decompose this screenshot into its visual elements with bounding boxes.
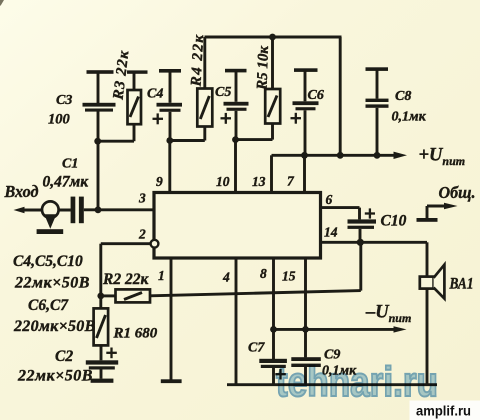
node A junction C3/R3 bbox=[94, 138, 101, 145]
svg-text:0,47мк: 0,47мк bbox=[43, 174, 90, 191]
ground tick pin 1 bbox=[161, 379, 182, 383]
svg-text:R4 22к: R4 22к bbox=[188, 33, 207, 88]
arrow -U bbox=[394, 326, 407, 332]
svg-text:С7: С7 bbox=[248, 341, 265, 356]
wire pin 7 bbox=[303, 155, 306, 192]
wire pin 2 feedback bbox=[101, 242, 151, 245]
resistor R1 bbox=[94, 296, 109, 360]
svg-text:8: 8 bbox=[260, 266, 267, 281]
resistor R4 bbox=[170, 37, 213, 141]
wire pin 15 to C9 bbox=[304, 258, 307, 357]
corner smudge bbox=[0, 0, 4, 6]
wire pin 14 bbox=[321, 241, 361, 244]
terminal input arrow bbox=[14, 207, 25, 214]
svg-text:220мк×50В: 220мк×50В bbox=[13, 318, 96, 335]
node junction input line bbox=[95, 206, 102, 213]
pin 2 inverting circle bbox=[151, 240, 159, 248]
svg-text:R5 10к: R5 10к bbox=[254, 45, 272, 91]
node junction right vertical on rail bbox=[337, 152, 344, 159]
wire pin 10 bbox=[234, 140, 237, 193]
svg-text:Вход: Вход bbox=[4, 182, 39, 201]
node B junction C4/R4/pin9 bbox=[166, 137, 173, 144]
wire top bus bbox=[205, 36, 342, 39]
svg-text:0,1мк: 0,1мк bbox=[392, 110, 427, 125]
wire speaker to bus bbox=[426, 289, 429, 385]
svg-text:15: 15 bbox=[282, 269, 296, 284]
svg-text:4: 4 bbox=[222, 270, 230, 285]
node junction R2/R1 bbox=[97, 293, 104, 300]
node junction C8 on rail bbox=[374, 152, 381, 159]
wire pin 6 bbox=[321, 208, 360, 220]
node junction C6 pin7 on rail bbox=[301, 152, 308, 159]
wire to speaker bbox=[360, 242, 427, 276]
svg-text:С10: С10 bbox=[381, 213, 407, 230]
wire pin 13 bbox=[270, 155, 273, 192]
node junction R5 top bbox=[269, 34, 276, 41]
capacitor C8 bbox=[366, 67, 389, 155]
svg-text:13: 13 bbox=[252, 174, 266, 189]
svg-text:6: 6 bbox=[326, 192, 333, 207]
arrow +U bbox=[394, 152, 408, 159]
wire bootstrap vertical bbox=[359, 242, 362, 290]
capacitor C3 bbox=[83, 70, 116, 141]
node junction C9 on -U bbox=[302, 326, 309, 333]
svg-text:С8: С8 bbox=[395, 89, 411, 104]
svg-text:С2: С2 bbox=[55, 348, 73, 365]
wire pin 9 bbox=[168, 141, 171, 193]
svg-text:3: 3 bbox=[138, 191, 146, 206]
wire feedback vertical left bbox=[99, 244, 102, 296]
node junction pin14/C10/bootstrap bbox=[357, 239, 364, 246]
svg-text:С4,С5,С10: С4,С5,С10 bbox=[13, 253, 83, 270]
svg-text:9: 9 bbox=[156, 174, 163, 189]
svg-text:ВА1: ВА1 bbox=[449, 276, 474, 293]
wire ground bus bottom bbox=[227, 383, 437, 386]
wire -U rail bbox=[274, 328, 398, 331]
svg-text:С6: С6 bbox=[308, 88, 324, 103]
capacitor C2 bbox=[86, 348, 118, 383]
input jack ground bar bbox=[37, 229, 64, 234]
resistor R3 bbox=[98, 70, 148, 141]
capacitor C1 bbox=[71, 197, 84, 224]
svg-text:R1 680: R1 680 bbox=[113, 326, 158, 342]
op-amp IC U1 body bbox=[154, 193, 321, 259]
svg-text:С5: С5 bbox=[215, 85, 231, 100]
wire feedback long to bootstrap bbox=[150, 291, 361, 296]
wire pin 1 bbox=[170, 258, 173, 380]
svg-text:10: 10 bbox=[216, 174, 230, 189]
input jack circle bbox=[42, 201, 59, 218]
wire pin 8 to C7 bbox=[272, 258, 275, 359]
svg-text:100: 100 bbox=[48, 112, 70, 128]
capacitor C9 bbox=[291, 357, 321, 385]
svg-text:С4: С4 bbox=[147, 87, 163, 102]
capacitor C6 bbox=[291, 68, 319, 155]
svg-text:Общ.: Общ. bbox=[439, 183, 476, 202]
resistor R5 bbox=[236, 37, 281, 140]
svg-text:22мк×50В: 22мк×50В bbox=[17, 368, 93, 385]
resistor R2 bbox=[101, 289, 150, 302]
wire right vertical from top bus to +U rail bbox=[339, 37, 342, 155]
capacitor C10 bbox=[348, 208, 377, 242]
svg-text:С6,С7: С6,С7 bbox=[28, 297, 69, 314]
node junction C5/R5/pin10 bbox=[232, 136, 239, 143]
svg-text:22мк×50В: 22мк×50В bbox=[14, 275, 90, 292]
input jack cone bbox=[44, 214, 56, 229]
svg-text:tehnari.ru: tehnari.ru bbox=[276, 358, 438, 405]
svg-text:С3: С3 bbox=[56, 93, 72, 108]
svg-text:2: 2 bbox=[138, 227, 146, 242]
terminal Common bbox=[417, 203, 458, 222]
svg-text:R2 22к: R2 22к bbox=[102, 271, 149, 288]
capacitor C7 bbox=[259, 359, 287, 385]
capacitor C4 bbox=[153, 69, 183, 141]
svg-text:14: 14 bbox=[324, 225, 338, 240]
wire node A down to input line bbox=[97, 141, 100, 210]
wire input bbox=[24, 209, 71, 212]
capacitor C5 bbox=[221, 69, 249, 140]
svg-text:1: 1 bbox=[158, 268, 165, 283]
wire pin 4 bbox=[235, 258, 238, 385]
node junction C7 on -U bbox=[270, 326, 277, 333]
speaker BA1 bbox=[420, 265, 445, 299]
svg-text:amplif.ru: amplif.ru bbox=[416, 404, 471, 419]
wire C1 to pin 3 bbox=[84, 208, 154, 211]
svg-text:С1: С1 bbox=[62, 157, 78, 172]
amplif.ru badge bbox=[410, 401, 480, 420]
wire +U rail bbox=[272, 154, 399, 157]
